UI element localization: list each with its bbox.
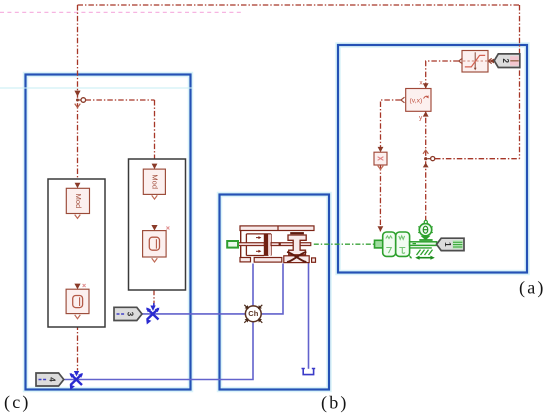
- svg-text:Mod: Mod: [74, 194, 83, 209]
- label (b): [321, 393, 349, 413]
- blue arrow into X4: [74, 371, 79, 376]
- wire: theta sensor to junction to (v,x) y-input: [425, 111, 427, 221]
- electromechanical converter right half: [396, 232, 410, 256]
- arrow into Mod 1: [75, 183, 81, 189]
- shaft case line: [410, 247, 432, 249]
- piston rod left: [238, 243, 264, 246]
- jack bottom-left foot: [240, 258, 251, 262]
- pink dashed signal line top: [0, 11, 242, 13]
- (v,x) output open arrowhead: [401, 97, 405, 103]
- piston: [264, 234, 271, 256]
- wire: top feedback horizontal: [78, 4, 520, 6]
- svg-text:Mod: Mod: [150, 174, 159, 189]
- block signal source 1: [66, 289, 89, 313]
- wire: blue hydraulic mid run: [142, 264, 284, 314]
- piston rod right: [271, 243, 311, 246]
- output shaft: [410, 242, 437, 246]
- arrow into gain block: [378, 147, 384, 152]
- svg-text:4: 4: [47, 377, 56, 382]
- tank symbol: [302, 369, 316, 375]
- wire: tag2 to saturation: [489, 60, 495, 62]
- tag 3 receiver: [114, 307, 142, 320]
- label (a): [519, 278, 546, 299]
- svg-text:Ch: Ch: [248, 309, 258, 318]
- variable orifice X: [288, 252, 306, 262]
- black frame right: [129, 159, 186, 290]
- chamber arrow upper: [256, 236, 261, 239]
- chamber arrow lower: [256, 250, 261, 253]
- arrow into motor: [378, 226, 384, 231]
- junction node with branch circle: [76, 98, 86, 103]
- svg-text:1: 1: [443, 242, 452, 247]
- open arrowhead below Mod 1: [75, 215, 81, 219]
- jack bottom manifold left: [254, 258, 282, 263]
- Ch hydraulic chamber node: [244, 305, 262, 323]
- tag 1 transmitter: [437, 238, 464, 250]
- saturation block: [462, 51, 488, 73]
- open arrowhead below source 2: [152, 258, 158, 262]
- jack outer left wall: [240, 231, 242, 258]
- black frame left: [48, 179, 105, 327]
- function block (v,x): [406, 89, 431, 112]
- svg-text:(a): (a): [519, 278, 546, 299]
- wire: junction to right corner horizontal: [435, 158, 520, 160]
- theta angle sensor: [418, 220, 433, 240]
- saturation input arrows: [488, 58, 494, 63]
- valve dark cap: [290, 232, 304, 234]
- arrow into Mod 2: [152, 164, 158, 170]
- wire: blue hydraulic bottom run: [65, 264, 254, 380]
- junction node theta branch: [424, 157, 435, 161]
- svg-text:3: 3: [125, 312, 134, 317]
- svg-text:(c): (c): [4, 392, 31, 413]
- subsystem box A (motor model): [338, 45, 527, 273]
- block signal source 2: [143, 231, 167, 257]
- wire: blue line to tank: [308, 263, 310, 369]
- jack bottom manifold right: [284, 256, 309, 263]
- electromechanical converter left half: [383, 232, 396, 256]
- green supply port: [227, 241, 238, 248]
- wire: right feedback vertical: [519, 5, 521, 159]
- x mark above source 1: [83, 284, 86, 287]
- y input label and arrow: [419, 111, 429, 121]
- converter left stub: [375, 240, 383, 248]
- open arrowhead below Mod 2: [152, 195, 158, 199]
- valve I-beam spool: [288, 235, 306, 255]
- X3 signal-hydraulic cross: [146, 308, 160, 325]
- faint cyan artifact line: [0, 87, 192, 89]
- solid arrow up from sensor: [423, 163, 429, 168]
- svg-text:2: 2: [501, 58, 510, 63]
- arrow into source 1: [74, 284, 80, 290]
- jack cylinder walls: [246, 234, 271, 256]
- converter corner tick: [409, 255, 412, 259]
- wire: branch from junction to right column: [86, 100, 155, 306]
- tag 4 receiver: [36, 373, 64, 386]
- wire: (v,x) output to gain to motor: [380, 100, 400, 231]
- svg-text:(b): (b): [321, 393, 349, 413]
- tag 2 transmitter: [494, 54, 520, 68]
- x input label and arrow: [419, 80, 428, 89]
- subsystem box B (hydraulic actuator): [220, 195, 330, 390]
- open arrowhead above junction: [423, 150, 428, 154]
- block Mod 2: [143, 169, 165, 194]
- arrow into junction: [74, 91, 80, 97]
- arrow into source 2: [151, 225, 157, 231]
- saturation output open arrowhead: [459, 58, 463, 64]
- label (c): [4, 392, 31, 413]
- blue arrow into X3: [150, 303, 155, 311]
- jack bottom small box: [312, 258, 316, 262]
- open arrowhead below source 1: [75, 315, 81, 319]
- hydraulic jack top bar: [240, 226, 314, 231]
- wire: saturation output to (v,x) x-input: [426, 61, 459, 88]
- svg-text:(v,x): (v,x): [410, 97, 423, 104]
- ground hatching: [417, 250, 433, 255]
- gain block: [374, 152, 387, 165]
- block Mod 1: [66, 188, 89, 213]
- open arrowhead below junction: [75, 104, 81, 108]
- wire: box C left vertical trunk: [77, 5, 79, 371]
- x mark above source 2: [166, 227, 169, 230]
- subsystem box C (controller): [26, 75, 191, 390]
- wire: mechanical green link actuator-motor: [314, 243, 375, 245]
- open arrowhead below gain: [378, 166, 384, 170]
- travel double arrow: [415, 256, 435, 260]
- X4 signal-hydraulic cross: [70, 373, 84, 390]
